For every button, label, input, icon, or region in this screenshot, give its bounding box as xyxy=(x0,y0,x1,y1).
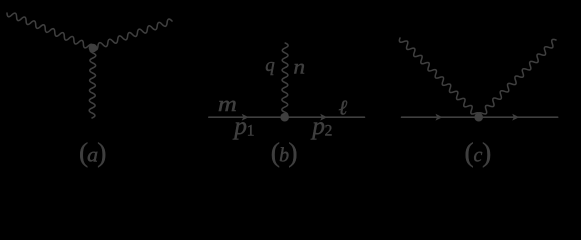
svg-text:ℓ: ℓ xyxy=(339,96,348,120)
fermion line b xyxy=(209,116,365,118)
svg-text:): ) xyxy=(97,137,106,168)
svg-text:2: 2 xyxy=(325,122,333,139)
label (b) xyxy=(271,137,298,168)
svg-text:): ) xyxy=(288,137,297,168)
photon line a top-left xyxy=(7,13,93,48)
arrow b left xyxy=(242,114,249,121)
photon line a top-right xyxy=(93,19,172,50)
arrow b right xyxy=(320,114,327,121)
vertex c xyxy=(474,113,483,122)
svg-text:q: q xyxy=(265,55,275,76)
label (a) xyxy=(79,137,106,168)
arrow c left xyxy=(436,114,443,121)
photon line a down xyxy=(89,48,96,118)
vertex a xyxy=(89,44,98,53)
fermion line c xyxy=(402,116,558,118)
svg-text:1: 1 xyxy=(247,122,255,139)
svg-text:p: p xyxy=(232,111,247,140)
svg-text:p: p xyxy=(310,111,325,140)
vertex b xyxy=(280,113,289,122)
svg-text:n: n xyxy=(293,54,305,78)
label (c) xyxy=(465,137,492,168)
svg-text:): ) xyxy=(482,137,491,168)
arrow c right xyxy=(512,114,519,121)
photon line b vertical (q,n) xyxy=(282,43,288,117)
photon line c left xyxy=(399,38,479,117)
photon line c right xyxy=(478,39,556,117)
svg-text:(: ( xyxy=(465,137,474,168)
svg-text:c: c xyxy=(473,145,482,167)
